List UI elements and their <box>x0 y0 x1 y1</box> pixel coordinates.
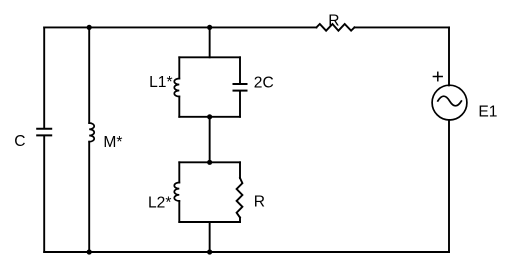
resistor R (top, horizontal zigzag) <box>316 24 354 31</box>
box1 right edge upper <box>239 57 241 83</box>
svg-text:L2*: L2* <box>148 194 171 211</box>
wire stub top to box1 <box>209 27 211 57</box>
wire branch M upper <box>88 27 90 123</box>
plus sign of E1 <box>433 72 442 80</box>
box1 top edge <box>179 56 240 58</box>
inductor L1* coil <box>174 79 179 97</box>
wire stub box1 to box2 <box>209 117 211 163</box>
wire right upper <box>448 27 450 85</box>
junction node bottom M <box>87 249 92 254</box>
junction node bottom middle <box>207 249 212 254</box>
wire top-right segment <box>355 26 450 28</box>
wire left lower <box>43 136 45 252</box>
svg-text:R: R <box>254 194 265 211</box>
capacitor C <box>37 129 51 136</box>
svg-text:E1: E1 <box>478 104 497 121</box>
wire left upper <box>43 27 45 128</box>
box1 left edge upper <box>178 57 180 78</box>
svg-text:M*: M* <box>103 134 122 151</box>
source E1 circle <box>432 85 467 120</box>
svg-text:R: R <box>328 13 339 30</box>
box2 left edge lower <box>178 201 180 222</box>
wire stub box2 to bottom <box>209 222 211 252</box>
box1 bottom edge <box>179 116 240 118</box>
wire bottom <box>44 251 449 253</box>
box2 right edge upper <box>239 162 241 178</box>
wire branch M lower <box>88 142 90 252</box>
resistor R (bottom, vertical zigzag) <box>237 178 243 218</box>
box2 bottom edge <box>179 221 240 223</box>
junction node top middle <box>207 25 212 30</box>
capacitor 2C <box>234 84 247 91</box>
box2 left edge upper <box>178 162 180 182</box>
inductor M* coil <box>89 123 94 142</box>
junction node box1 bottom <box>207 114 212 119</box>
svg-text:L1*: L1* <box>149 74 172 91</box>
wire top-left segment <box>44 26 316 28</box>
wire right lower <box>448 120 450 252</box>
sine wave of E1 <box>438 96 462 106</box>
box1 left edge lower <box>178 97 180 117</box>
box2 top edge <box>179 161 240 163</box>
junction node box2 top <box>207 160 212 165</box>
junction node top M <box>87 25 92 30</box>
inductor L2* coil <box>174 183 179 201</box>
svg-text:C: C <box>14 133 25 150</box>
box2 right edge lower <box>239 218 241 223</box>
svg-text:2C: 2C <box>254 75 274 92</box>
box1 right edge lower <box>239 91 241 117</box>
